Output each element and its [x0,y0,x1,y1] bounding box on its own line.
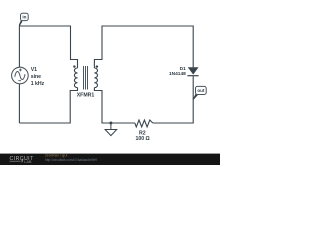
svg-text:LAB: LAB [24,160,32,164]
wire diode to bottom [153,76,193,123]
wire bottom-left loop [19,88,77,123]
svg-text:1N4148: 1N4148 [169,71,186,77]
resistor R2 [135,120,153,127]
svg-text:http://circuitlab.com/c/7aa6aa: http://circuitlab.com/c/7aa6aac6e9e9 [45,158,97,162]
label D1 1N4148 [169,66,186,77]
svg-text:V1: V1 [31,67,37,73]
wire V1 bottom lead [18,84,20,123]
footer text [45,154,97,162]
wire secondary top [94,26,193,68]
svg-text:out: out [197,88,205,93]
ground [105,123,117,136]
svg-text:sine: sine [31,74,41,80]
diode D1 [187,67,198,76]
svg-text:XFMR1: XFMR1 [77,93,95,99]
transformer XFMR1 secondary winding [94,68,97,88]
transformer polarity dots [73,65,75,67]
voltage source V1 [12,67,29,84]
footer bar [0,154,220,165]
footer logo CIRCUIT LAB [10,156,35,164]
net flag in [19,13,29,26]
label V1 sine 1kHz [31,67,45,87]
junction node [109,122,112,125]
svg-text:in: in [22,14,26,19]
net flag out [193,86,207,100]
svg-text:100 Ω: 100 Ω [135,136,149,142]
svg-text:1 kHz: 1 kHz [31,81,45,87]
wire V1 top lead [18,26,20,67]
wire secondary bottom [94,88,134,123]
transformer core [84,66,88,90]
transformer XFMR1 primary winding [74,68,77,88]
wire top-left loop [19,26,77,68]
label R2 100ohm [135,130,149,142]
